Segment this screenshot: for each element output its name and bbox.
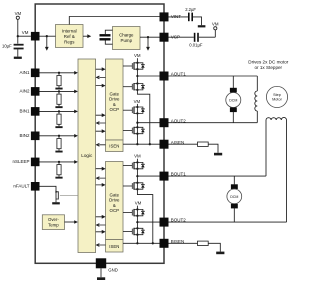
svg-text:Temp: Temp xyxy=(48,223,59,228)
svg-text:AIN2: AIN2 xyxy=(19,89,30,94)
node BOUT1 junction xyxy=(136,175,138,177)
block ISEN A xyxy=(106,140,124,152)
pin nSLEEP xyxy=(12,158,39,167)
junction sense A1 xyxy=(136,143,138,145)
pin VINT xyxy=(160,12,169,21)
pin VM xyxy=(31,32,40,41)
junction sense A2 xyxy=(149,143,151,145)
wire sense resistor to ground B xyxy=(208,243,220,251)
wire GateDriveA to Logic arrow 2 xyxy=(96,76,106,80)
pin BIN2 xyxy=(19,132,39,141)
junction sense B1 xyxy=(136,242,138,244)
junction BIN2 xyxy=(58,135,60,137)
motor M1 DCM A xyxy=(226,76,241,123)
wire GateDriveB to Logic arrow 2 xyxy=(96,176,106,180)
motor M2 DCM B xyxy=(227,176,242,222)
wire Logic to GateDriveB arrow 3 xyxy=(96,183,106,187)
capacitor C3 0.01µF xyxy=(169,33,216,48)
wire Logic to GateDriveA arrow 4 xyxy=(96,113,106,117)
capacitor CP flying cap plates xyxy=(100,34,111,40)
pin GND xyxy=(96,258,118,272)
capacitor C1 10µF plates xyxy=(2,44,24,50)
inductor stepper winding 1 xyxy=(255,76,258,123)
svg-text:OCP: OCP xyxy=(110,208,120,213)
transistor Q2 high-side A1 xyxy=(123,62,145,71)
wire VM terminal to VM pin and cap xyxy=(18,19,31,43)
wire ISENA to Logic arrow xyxy=(96,143,106,147)
ground BIN2 xyxy=(55,151,62,153)
node AOUT2 junction xyxy=(136,122,138,124)
capacitor C2 2.2µF xyxy=(169,7,202,25)
wire half-bridge A1 low rail xyxy=(137,76,149,144)
wire BOUT2 net xyxy=(137,221,286,223)
svg-text:VM: VM xyxy=(134,99,141,104)
ground below C2 xyxy=(198,25,206,27)
wire AOUT1 net xyxy=(137,75,257,77)
svg-text:GND: GND xyxy=(108,268,118,273)
svg-text:BIN2: BIN2 xyxy=(19,133,30,138)
wire C1 to ground xyxy=(17,49,19,56)
svg-text:Ref &: Ref & xyxy=(64,34,75,39)
pin AIN2 xyxy=(19,87,39,96)
svg-text:AOUT2: AOUT2 xyxy=(171,118,187,123)
wire Logic to GateDriveA arrow 1 xyxy=(96,67,106,71)
wire Internal Ref to VINT pin xyxy=(69,17,159,25)
node AOUT1 junction xyxy=(136,75,138,77)
wire Charge Pump to VCP pin xyxy=(140,36,160,38)
junction VM internal xyxy=(46,35,48,37)
svg-text:10µF: 10µF xyxy=(2,44,12,49)
label Drives 2x DC motor or 1x Stepper xyxy=(248,60,289,70)
junction sense B2 xyxy=(152,242,154,244)
svg-text:nFAULT: nFAULT xyxy=(13,184,29,189)
svg-text:Step: Step xyxy=(273,93,281,97)
svg-text:VM: VM xyxy=(134,154,141,159)
wire half-bridge B2 low rail xyxy=(136,222,138,243)
wire AIN1 to Logic xyxy=(40,71,78,75)
block Logic xyxy=(78,59,96,253)
block Charge Pump xyxy=(113,27,141,50)
svg-text:BOUT2: BOUT2 xyxy=(171,218,187,223)
wire gate drive A to Q2 gate xyxy=(122,65,124,67)
svg-text:Drives 2x DC motor: Drives 2x DC motor xyxy=(248,60,289,65)
node VM supply terminal top-left xyxy=(15,11,22,20)
arrow down from VCP net xyxy=(146,37,150,51)
resistor R BIN1 pulldown xyxy=(57,111,61,126)
wire Logic to GateDriveA arrow 3 xyxy=(96,84,106,88)
svg-text:DCM: DCM xyxy=(229,98,237,102)
block Over-Temp xyxy=(42,215,64,230)
junction VCP internal xyxy=(147,36,149,38)
resistor R BIN2 pulldown xyxy=(57,136,61,151)
svg-text:ISEN: ISEN xyxy=(109,244,119,249)
svg-text:Logic: Logic xyxy=(81,153,93,158)
svg-text:VM: VM xyxy=(212,22,219,27)
node BOUT2 junction xyxy=(136,221,138,223)
pin VCP xyxy=(160,33,169,42)
svg-text:BIN1: BIN1 xyxy=(19,109,30,114)
pin BIN1 xyxy=(19,107,39,116)
svg-text:Regs: Regs xyxy=(64,39,75,44)
wire half-bridge B2 rail xyxy=(136,206,138,223)
svg-text:2.2µF: 2.2µF xyxy=(185,7,196,12)
ground BISEN xyxy=(216,252,224,255)
ground AIN1 xyxy=(55,88,62,90)
ground AISEN xyxy=(214,153,222,156)
wire BISEN to sense resistor xyxy=(169,242,198,244)
wire half-bridge A1 rail xyxy=(136,58,138,76)
svg-text:Over-: Over- xyxy=(48,217,59,222)
wire flying cap leads to Charge Pump xyxy=(105,30,112,44)
wire AISEN sense line xyxy=(123,143,160,145)
junction nSLEEP xyxy=(58,161,60,163)
wire nFAULT to open-drain FET xyxy=(40,186,57,190)
svg-text:Motor: Motor xyxy=(272,98,282,102)
wire Logic to GateDriveB arrow 1 xyxy=(96,167,106,171)
svg-text:OCP: OCP xyxy=(110,107,120,112)
wire Logic to GateDriveB arrow 4 xyxy=(96,215,106,219)
arrow down from VM net xyxy=(45,36,49,51)
block Gate Drive & OCP A xyxy=(106,59,124,140)
ground GND xyxy=(97,277,105,280)
transistor Q3 low-side A1 xyxy=(123,82,145,91)
wire half-bridge A2 low rail xyxy=(136,123,138,145)
block Internal Ref & Regs xyxy=(56,25,84,48)
pin BOUT2 xyxy=(160,218,187,227)
transistor Q5 low-side A2 xyxy=(123,126,145,135)
ground Q1 source xyxy=(52,201,60,205)
resistor R BISEN sense xyxy=(198,241,209,245)
wire sense resistor to ground A xyxy=(208,144,218,153)
svg-text:VM: VM xyxy=(22,30,29,35)
wire BOUT1 net xyxy=(137,175,266,177)
svg-text:Charge: Charge xyxy=(119,33,134,38)
wire stepper winding 2 left leg xyxy=(265,120,267,176)
wire BIN2 to Logic xyxy=(40,134,78,138)
motor M3 Step Motor xyxy=(266,86,287,107)
transistor Q7 low-side B1 xyxy=(123,182,145,191)
pin BOUT1 xyxy=(160,172,187,181)
resistor R AISEN sense xyxy=(198,142,209,146)
svg-text:ISEN: ISEN xyxy=(109,144,119,149)
wire nSLEEP to Logic xyxy=(40,160,78,164)
wire half-bridge B1 rail xyxy=(136,159,138,176)
svg-text:BOUT1: BOUT1 xyxy=(171,172,187,177)
junction AIN2 xyxy=(58,90,60,92)
wire stepper winding 2 right leg xyxy=(286,120,288,222)
node VM supply terminal top-right xyxy=(212,22,219,38)
resistor R AIN2 pulldown xyxy=(57,91,61,106)
transistor Q4 high-side A2 xyxy=(123,106,145,115)
svg-text:0.01µF: 0.01µF xyxy=(189,42,203,47)
junction VM xyxy=(17,35,19,37)
wire GateDriveB to Logic arrow 5 xyxy=(96,223,106,227)
transistor Q9 low-side B2 xyxy=(123,227,145,236)
pin nFAULT xyxy=(13,182,39,191)
wire Logic to GateDriveB arrow 6 xyxy=(96,230,106,234)
svg-text:nSLEEP: nSLEEP xyxy=(12,159,29,164)
wire BIN1 to Logic xyxy=(40,110,78,114)
junction AIN1 xyxy=(58,72,60,74)
wire Q1 gate to Logic xyxy=(60,194,78,196)
svg-text:AIN1: AIN1 xyxy=(19,70,30,75)
wire Over-Temp to Logic xyxy=(65,220,78,224)
transistor Q6 high-side B1 xyxy=(123,161,145,170)
pin AIN1 xyxy=(19,69,39,78)
inductor stepper winding 2 xyxy=(266,117,287,120)
ground nSLEEP xyxy=(55,177,62,179)
wire VM pin to Internal Ref xyxy=(40,35,56,37)
svg-text:Internal: Internal xyxy=(62,29,77,34)
wire GateDriveA to Logic arrow 5 xyxy=(96,121,106,125)
resistor R AIN1 pulldown xyxy=(57,73,61,88)
pin AOUT1 xyxy=(160,72,187,81)
block ISEN B xyxy=(106,240,124,253)
ground BIN1 xyxy=(55,126,62,128)
transistor Q8 high-side B2 xyxy=(123,208,145,217)
wire AOUT2 net xyxy=(137,122,257,124)
svg-text:VM: VM xyxy=(134,53,141,58)
wire ISENB to Logic arrow xyxy=(96,243,106,247)
transistor Q1 nFAULT open-drain xyxy=(55,190,58,201)
block Gate Drive & OCP B xyxy=(106,162,124,240)
svg-text:VM: VM xyxy=(135,201,142,206)
junction BIN1 xyxy=(58,110,60,112)
wire Logic to GateDriveA arrow 6 xyxy=(96,129,106,133)
svg-text:AOUT1: AOUT1 xyxy=(171,72,187,77)
svg-text:DCM: DCM xyxy=(230,195,238,199)
svg-text:or 1x Stepper: or 1x Stepper xyxy=(255,65,283,70)
wire BISEN sense line xyxy=(123,242,160,244)
pin AISEN xyxy=(160,140,185,149)
ground below C1 xyxy=(14,57,22,59)
wire half-bridge B1 low rail xyxy=(137,176,152,243)
wire AIN2 to Logic xyxy=(40,90,78,94)
pin BISEN xyxy=(160,239,185,248)
ground AIN2 xyxy=(55,106,62,108)
wire Internal Ref output arrow xyxy=(83,34,91,38)
wire half-bridge A2 rail xyxy=(136,104,138,123)
pin AOUT2 xyxy=(160,118,187,127)
IC boundary U1 xyxy=(35,4,164,263)
svg-text:VM: VM xyxy=(15,11,22,16)
wire AISEN to sense resistor xyxy=(169,143,198,145)
svg-text:Pump: Pump xyxy=(121,38,133,43)
wire GND pin to ground xyxy=(100,268,102,277)
resistor R nSLEEP pulldown xyxy=(57,162,61,177)
